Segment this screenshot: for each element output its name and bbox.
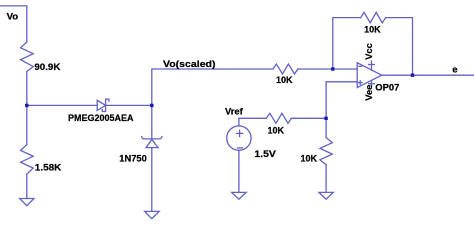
junction node C bbox=[324, 117, 327, 120]
wire Vo input top-left bbox=[0, 6, 27, 42]
svg-text:1.5V: 1.5V bbox=[254, 149, 276, 160]
wire R3 to inverting input bbox=[298, 68, 357, 70]
svg-text:1.58K: 1.58K bbox=[35, 163, 62, 174]
svg-text:1N750: 1N750 bbox=[119, 154, 147, 165]
ground G3 bbox=[232, 192, 246, 199]
wire feedback right vertical bbox=[386, 18, 413, 76]
wire node C to R6 bbox=[325, 118, 327, 137]
junction node A bbox=[25, 104, 28, 107]
resistor R3 10K input bbox=[273, 64, 298, 74]
wire zener to ground bbox=[151, 148, 153, 212]
resistor R1 90.9K bbox=[21, 42, 34, 72]
svg-text:PMEG2005AEA: PMEG2005AEA bbox=[68, 113, 134, 124]
svg-text:Vcc: Vcc bbox=[364, 43, 375, 60]
svg-text:OP07: OP07 bbox=[375, 83, 399, 94]
svg-text:Vee: Vee bbox=[364, 85, 375, 101]
svg-text:Vo(scaled): Vo(scaled) bbox=[163, 59, 216, 70]
svg-text:10K: 10K bbox=[276, 75, 293, 86]
wire R1 to node A bbox=[26, 72, 28, 106]
wire node B up to Vo(scaled) bbox=[152, 69, 273, 105]
op-amp plus input mark bbox=[358, 82, 362, 84]
op-amp minus input mark bbox=[359, 65, 362, 67]
junction node B bbox=[150, 104, 153, 107]
wire R2 to ground bbox=[26, 174, 28, 198]
ground G4 bbox=[145, 211, 160, 218]
diode D1 PMEG2005AEA bbox=[97, 100, 105, 110]
wire op-amp output bbox=[382, 74, 474, 76]
resistor R2 1.58K bbox=[21, 145, 34, 175]
wire feedback left vertical bbox=[333, 18, 361, 69]
svg-text:e: e bbox=[452, 64, 457, 75]
svg-text:10K: 10K bbox=[364, 25, 381, 36]
op-amp Vcc pin stub bbox=[371, 61, 373, 70]
V1 minus mark bbox=[237, 147, 242, 149]
op-amp U1 triangle bbox=[357, 63, 382, 88]
resistor R5 10K vref bbox=[266, 113, 291, 123]
wire non-inverting input bbox=[326, 82, 357, 119]
voltage source V1 Vref bbox=[227, 126, 251, 150]
junction output node bbox=[411, 74, 414, 77]
wire node A to diode anode bbox=[27, 104, 98, 106]
ground G1 bbox=[20, 199, 34, 206]
svg-text:90.9K: 90.9K bbox=[34, 62, 60, 73]
svg-text:Vo: Vo bbox=[7, 12, 19, 23]
wire node B to zener bbox=[151, 105, 153, 132]
resistor R4 10K feedback bbox=[361, 12, 386, 22]
svg-text:10K: 10K bbox=[268, 125, 285, 136]
V1 plus mark bbox=[236, 132, 242, 134]
ground G2 bbox=[319, 192, 333, 199]
op-amp Vee pin stub bbox=[371, 81, 373, 87]
wire node A to R2 bbox=[26, 105, 28, 144]
zener diode D2 1N750 bbox=[142, 137, 162, 139]
svg-text:10K: 10K bbox=[301, 154, 318, 165]
resistor R6 10K to ground bbox=[320, 138, 332, 165]
wire diode cathode to node B bbox=[106, 104, 152, 106]
junction inverting node bbox=[331, 67, 334, 70]
wire R5 to node C bbox=[291, 117, 326, 119]
wire R6 to ground bbox=[325, 165, 327, 193]
svg-text:Vref: Vref bbox=[225, 107, 244, 118]
wire Vref node row bbox=[239, 117, 266, 119]
